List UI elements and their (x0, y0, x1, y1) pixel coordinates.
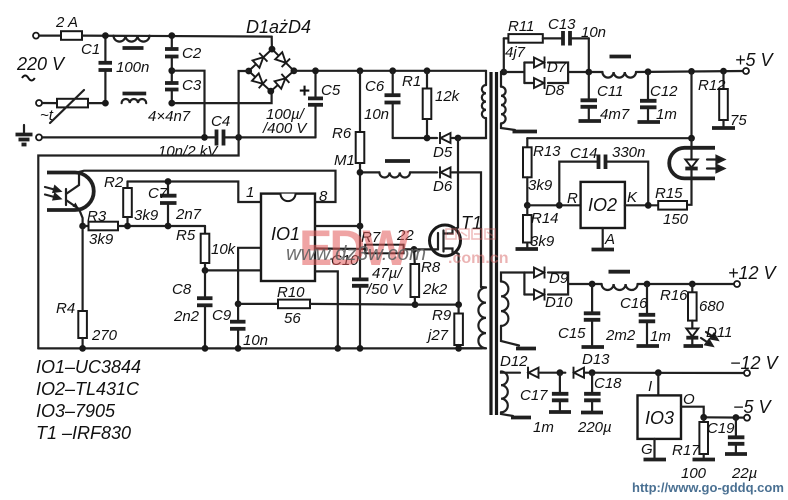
terminal L input (33, 33, 61, 39)
svg-text:D10: D10 (545, 294, 573, 311)
terminal +12V (734, 281, 740, 287)
watermark center logo (299, 220, 410, 276)
svg-text:3k9: 3k9 (89, 231, 114, 248)
wire pin6 out to R7 (315, 247, 365, 250)
optocoupler phototransistor housing (47, 173, 94, 211)
ground A pin (592, 248, 615, 252)
inductor L3 vcc choke (379, 161, 410, 178)
svg-text:3k9: 3k9 (528, 177, 553, 194)
svg-text:150: 150 (663, 211, 689, 228)
svg-text:−5 V: −5 V (733, 397, 773, 417)
wire pin7 to vcc line (315, 225, 360, 227)
svg-text:R1: R1 (402, 73, 421, 90)
svg-text:680: 680 (699, 298, 725, 315)
svg-text:10n: 10n (581, 24, 606, 41)
svg-text:8: 8 (319, 188, 328, 205)
svg-text:2 A: 2 A (55, 14, 78, 31)
transformer core (491, 72, 497, 415)
node R1 top (424, 67, 431, 74)
wire source (455, 252, 459, 305)
wire HV plus bus (294, 70, 486, 72)
wire D12 to D13 (539, 372, 566, 374)
node R13 R14 junction (524, 202, 531, 209)
svg-text:C17: C17 (520, 387, 548, 404)
resistor R4 (78, 226, 87, 348)
diode pair D7 D8 (504, 63, 603, 84)
node C2-C3 mid (168, 67, 175, 74)
wire opto collector to pin8 line (79, 171, 336, 202)
bridge rectifier D1azD4 (249, 49, 294, 91)
wire pin1 net (128, 182, 262, 203)
node opto emitter junction (79, 223, 86, 230)
svg-text:4j7: 4j7 (505, 44, 526, 61)
svg-text:10n: 10n (364, 106, 389, 123)
node R5 bottom (202, 267, 209, 274)
svg-text:D7: D7 (547, 59, 567, 76)
wire D6 to aux winding (452, 172, 481, 287)
wire snubber bottom (393, 137, 486, 139)
diode D12 (528, 367, 539, 379)
transformer -12V winding (501, 372, 508, 413)
resistor R7 (365, 245, 414, 254)
svg-text:C11: C11 (597, 83, 623, 100)
node C19 top (733, 414, 740, 421)
svg-text:2n2: 2n2 (173, 308, 200, 325)
svg-text:~t: ~t (40, 107, 54, 124)
ground D11 (684, 344, 704, 348)
svg-text:R11: R11 (508, 18, 534, 35)
svg-text:1m: 1m (656, 106, 677, 123)
svg-text:IO1: IO1 (271, 224, 300, 244)
node C14 left (556, 202, 563, 209)
svg-text:T1 –IRF830: T1 –IRF830 (36, 423, 131, 443)
diode D7 (534, 57, 545, 69)
fuse F1 (61, 31, 82, 40)
svg-text:D6: D6 (433, 178, 453, 195)
capacitor C16 (639, 284, 656, 344)
svg-text:http://www.go-gddq.com: http://www.go-gddq.com (632, 480, 784, 495)
inductor L4 5V choke (602, 57, 743, 78)
svg-text:R3: R3 (87, 208, 107, 225)
node VCC choke junction (357, 169, 364, 176)
node R12 top (720, 68, 727, 75)
svg-text:O: O (683, 391, 695, 408)
transistor T1 mosfet (414, 225, 461, 256)
node C7 top (165, 178, 172, 185)
svg-text:75: 75 (730, 112, 747, 129)
svg-text:4m7: 4m7 (600, 106, 630, 123)
resistor R3 (83, 222, 205, 231)
capacitor C19 (728, 418, 745, 453)
diode D13 (574, 367, 585, 379)
transformer primary top wire (485, 71, 487, 85)
diode D9 (534, 267, 545, 279)
ground R14 (516, 247, 539, 251)
svg-text:/400 V: /400 V (262, 120, 308, 137)
svg-text:C5: C5 (321, 82, 341, 99)
wire 5V winding bottom to gnd (501, 124, 515, 130)
capacitor C15 (584, 284, 601, 345)
optocoupler led housing (669, 148, 715, 179)
resistor R9 (454, 305, 463, 349)
capacitor C11 (581, 72, 598, 119)
svg-text:K: K (627, 189, 638, 206)
svg-text:−12 V: −12 V (730, 353, 780, 373)
svg-text:1m: 1m (650, 328, 671, 345)
svg-text:IO2: IO2 (588, 195, 617, 215)
svg-text:C12: C12 (650, 83, 678, 100)
transformer 5V winding (501, 87, 506, 124)
label ~ (22, 76, 35, 81)
diode D8 (534, 77, 545, 89)
svg-text:R16: R16 (660, 287, 688, 304)
node feedback tap (688, 68, 695, 75)
choke L1a top winding (114, 36, 150, 48)
svg-text:1: 1 (246, 184, 254, 201)
ground bus primary (38, 347, 481, 349)
capacitor C17 (552, 373, 569, 410)
capacitor C9 (230, 304, 246, 349)
wire pin3 net (238, 248, 261, 304)
svg-text:C13: C13 (548, 16, 576, 33)
resistor R1 (423, 71, 432, 138)
svg-text:3k9: 3k9 (530, 233, 555, 250)
svg-text:G: G (641, 441, 653, 458)
transformer aux winding (478, 287, 486, 348)
svg-text:+5 V: +5 V (735, 50, 775, 70)
svg-text:www.dz3w.com: www.dz3w.com (286, 242, 426, 265)
node bridge top (269, 46, 276, 53)
svg-text:R2: R2 (104, 174, 124, 191)
resistor R16 (688, 284, 697, 328)
opto light arrows (45, 187, 60, 200)
svg-text:10n/2 kV: 10n/2 kV (158, 143, 219, 160)
diode D10 (534, 289, 545, 301)
capacitor C13 (563, 31, 589, 72)
svg-text:56: 56 (284, 310, 301, 327)
resistor R12 (719, 71, 728, 126)
svg-text:IO3: IO3 (645, 408, 674, 428)
svg-text:.com.cn: .com.cn (448, 250, 508, 267)
diode D5 (440, 132, 451, 144)
wire sense line (415, 304, 459, 306)
resistor R8 (411, 249, 420, 304)
IC IO1 UC3844 (261, 194, 315, 281)
earth terminal (36, 134, 215, 140)
node R8 bottom (412, 301, 419, 308)
ground 12V winding (516, 347, 536, 351)
transformer primary winding (482, 85, 486, 118)
node C17 top (557, 369, 564, 376)
svg-text:D13: D13 (582, 351, 610, 368)
node R9 bottom (455, 345, 462, 352)
svg-text:+12 V: +12 V (728, 263, 778, 283)
svg-text:A: A (604, 231, 615, 248)
node R6 top (357, 67, 364, 74)
svg-text:2k2: 2k2 (422, 281, 448, 298)
choke L1b bottom winding (122, 94, 147, 104)
svg-text:I: I (648, 378, 652, 395)
node led anode (688, 135, 695, 142)
wire A pin (602, 228, 604, 248)
svg-text:R10: R10 (277, 284, 305, 301)
capacitor C3 (165, 71, 179, 103)
wire feedback line (527, 138, 691, 147)
svg-text:D11: D11 (706, 324, 732, 341)
node R17 top (700, 414, 707, 421)
ground C19 (725, 452, 747, 456)
svg-text:R5: R5 (176, 227, 196, 244)
wire feedback tap down (690, 71, 692, 138)
svg-text:+: + (299, 81, 310, 102)
node C15 top (589, 281, 596, 288)
terminal -5V (744, 415, 750, 421)
optocoupler phototransistor symbol (66, 172, 83, 226)
node C16 top (644, 281, 651, 288)
capacitor C7 (160, 182, 177, 227)
wire aux bottom to bus (459, 347, 486, 349)
ground G pin (644, 458, 667, 462)
wire bridge left to DC minus (239, 71, 249, 137)
resistor R15 (658, 201, 687, 210)
wire 12V winding bottom to gnd (501, 326, 519, 346)
svg-text:R: R (567, 190, 578, 207)
svg-text:C2: C2 (182, 45, 202, 62)
svg-text:C3: C3 (182, 77, 202, 94)
transformer 12V winding (501, 282, 508, 326)
terminal N input (36, 100, 57, 106)
svg-text:IO3–7905: IO3–7905 (36, 401, 116, 421)
svg-text:12k: 12k (435, 88, 461, 105)
svg-text:IO1–UC3844: IO1–UC3844 (36, 357, 141, 377)
svg-text:2m2: 2m2 (605, 327, 636, 344)
wire 5V winding top (501, 72, 504, 87)
ground R12 (712, 126, 735, 130)
svg-text:C6: C6 (365, 78, 385, 95)
capacitor C2 (165, 36, 179, 71)
inductor L5 12V choke (602, 272, 734, 290)
svg-text:C4: C4 (211, 113, 230, 130)
node C3 bottom (168, 100, 175, 107)
svg-text:270: 270 (91, 327, 118, 344)
resistor R5 (201, 226, 210, 270)
ground sec 5V winding (513, 130, 538, 134)
node C18 top (589, 369, 596, 376)
node C6 top (389, 67, 396, 74)
node thermistor-C1 (102, 100, 109, 107)
svg-text:C19: C19 (707, 420, 735, 437)
svg-text:M1: M1 (334, 152, 355, 169)
node R4 on bus (79, 345, 86, 352)
wire pin5 ground (315, 271, 338, 348)
wire -12V winding bottom (501, 412, 513, 416)
resistor R2 (123, 182, 132, 227)
svg-text:10n: 10n (243, 332, 268, 349)
svg-text:R12: R12 (698, 77, 726, 94)
node C11 top (585, 69, 592, 76)
resistor R14 (523, 205, 532, 247)
node bridge left (245, 68, 252, 75)
node C7 bottom (165, 223, 172, 230)
svg-text:C7: C7 (148, 185, 168, 202)
IC IO2 TL431 (581, 182, 625, 228)
node bridge bottom (267, 88, 274, 95)
node C9 on bus (235, 345, 242, 352)
svg-text:R4: R4 (56, 300, 75, 317)
optocoupler led diode D14 (685, 138, 697, 205)
capacitor C12 (640, 72, 657, 120)
ground C16 (637, 344, 660, 348)
capacitor C10 (352, 226, 369, 348)
svg-text:C15: C15 (558, 325, 586, 342)
wire -12V rail (584, 372, 744, 374)
ground C15 (582, 345, 605, 349)
node pin5 gnd on bus (334, 345, 341, 352)
diode D6 (440, 166, 451, 178)
wire pin2 to R5 bottom (205, 269, 261, 271)
node C12 top (645, 68, 652, 75)
terminal -12V (744, 370, 750, 376)
node R16 top (689, 281, 696, 288)
thermistor ~t (50, 90, 105, 123)
svg-text:IO2–TL431C: IO2–TL431C (36, 379, 140, 399)
resistor R11 (504, 34, 562, 43)
capacitor C14 (559, 155, 648, 206)
node C5 top (312, 67, 319, 74)
node C8 on bus (202, 345, 209, 352)
node C2 top (168, 32, 175, 39)
node C10 on bus (357, 345, 364, 352)
svg-text:R14: R14 (531, 210, 559, 227)
svg-text:220 V: 220 V (16, 54, 66, 74)
ground C17 (549, 410, 571, 414)
svg-text:D5: D5 (433, 144, 453, 161)
wire -12V winding top (501, 372, 520, 373)
capacitor C6 (385, 71, 401, 138)
node R1 bottom (424, 135, 431, 142)
svg-text:R17: R17 (672, 442, 700, 459)
ground C18 (581, 411, 603, 415)
svg-text:330n: 330n (612, 144, 645, 161)
wire DC-minus to control box (38, 137, 238, 348)
wire bottom AC to bridge (172, 91, 272, 103)
svg-text:D12: D12 (500, 353, 528, 370)
node drain tap (455, 135, 462, 142)
svg-text:100n: 100n (116, 59, 149, 76)
svg-text:D1ażD4: D1ażD4 (246, 17, 311, 37)
node bridge right (291, 67, 298, 74)
node C4-bridge-minus (235, 134, 242, 141)
node C9 top (235, 301, 242, 308)
ground -12V winding (511, 416, 531, 420)
ground earth symbol (16, 125, 33, 145)
node IO3 input (655, 369, 662, 376)
svg-text:2n7: 2n7 (175, 206, 202, 223)
wire R pin (527, 204, 580, 206)
wire I pin (657, 373, 659, 396)
svg-text:/50 V: /50 V (366, 281, 404, 298)
wire R11C13 left (503, 38, 505, 72)
capacitor C1 (99, 36, 113, 104)
wire C2C3 mid to earth line (172, 71, 205, 138)
svg-text:C1: C1 (81, 41, 100, 58)
wire O pin (681, 407, 744, 418)
ground C12 (638, 120, 661, 124)
svg-text:C9: C9 (212, 307, 232, 324)
resistor R10 (238, 300, 415, 309)
node fuse-C1 junction (102, 32, 109, 39)
capacitor C8 (197, 270, 213, 348)
svg-text:R9: R9 (432, 307, 452, 324)
svg-text:C16: C16 (620, 295, 648, 312)
node R2 bottom (124, 223, 131, 230)
svg-text:C8: C8 (172, 281, 192, 298)
capacitor C5 (308, 71, 323, 138)
led light arrows (707, 156, 724, 172)
wire 12V winding top (501, 273, 524, 282)
node earth-C2C3 (201, 134, 208, 141)
svg-text:D9: D9 (549, 270, 569, 287)
svg-text:R13: R13 (533, 143, 561, 160)
resistor R13 (523, 147, 532, 205)
svg-text:C18: C18 (594, 375, 622, 392)
IC IO3 7905 (638, 395, 682, 439)
wire primary bottom to drain (458, 118, 486, 138)
resistor R6 (356, 71, 365, 226)
svg-text:C14: C14 (570, 145, 598, 162)
svg-text:1m: 1m (533, 419, 554, 436)
wire G pin (653, 439, 655, 458)
svg-text:220µ: 220µ (577, 419, 612, 436)
svg-text:R15: R15 (655, 185, 683, 202)
wire choke to D6 (410, 171, 437, 173)
node R11 branch (500, 69, 507, 76)
wire top AC to bridge (82, 36, 272, 50)
node pin7 vcc (357, 223, 364, 230)
svg-text:j27: j27 (426, 327, 449, 344)
wire K pin (625, 204, 658, 206)
svg-text:D8: D8 (545, 82, 565, 99)
wire VCC node to choke (360, 171, 379, 173)
capacitor C18 (584, 373, 601, 411)
resistor R17 (699, 417, 708, 457)
capacitor C4 (217, 130, 316, 146)
ground R17 (693, 458, 716, 462)
svg-text:3k9: 3k9 (134, 207, 159, 224)
node gate junction (411, 246, 418, 253)
node source R9 top (455, 301, 462, 308)
svg-text:R6: R6 (332, 125, 352, 142)
terminal +5V (743, 68, 749, 74)
ground C11 (579, 119, 602, 123)
svg-text:4×4n7: 4×4n7 (148, 108, 191, 125)
svg-text:10k: 10k (211, 241, 237, 258)
diode pair D9 D10 (524, 273, 601, 295)
led D11 arrows (701, 332, 718, 346)
node C14 right (645, 202, 652, 209)
watermark chinese (446, 229, 495, 239)
diode D11 led (686, 329, 698, 345)
wire drain (455, 138, 458, 229)
